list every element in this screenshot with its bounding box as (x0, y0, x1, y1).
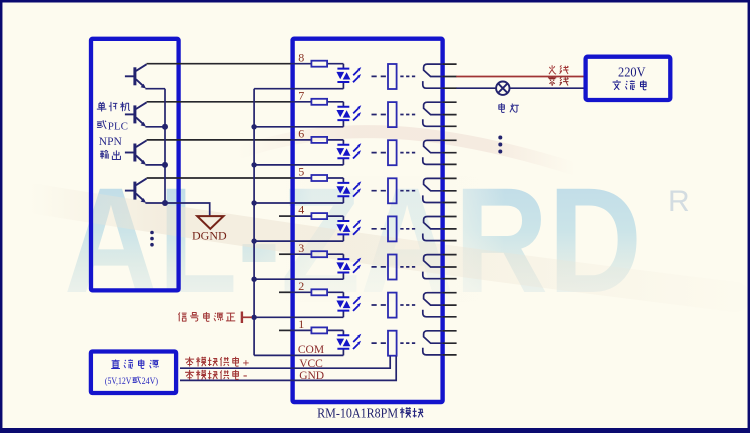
svg-text:4: 4 (298, 203, 304, 217)
svg-text:VCC: VCC (299, 358, 323, 370)
svg-text:7: 7 (298, 88, 304, 102)
svg-text:PLC: PLC (108, 120, 128, 132)
svg-text:RM-10A1R8PM: RM-10A1R8PM (317, 406, 398, 421)
svg-text:6: 6 (298, 127, 304, 141)
svg-text:24V): 24V) (142, 376, 159, 387)
svg-text:(5V,12V: (5V,12V (105, 376, 132, 387)
svg-text:DGND: DGND (192, 229, 227, 243)
svg-text:-: - (243, 367, 247, 382)
svg-text:2: 2 (298, 279, 304, 293)
svg-text:NPN: NPN (99, 136, 123, 148)
svg-text:R: R (668, 185, 690, 218)
svg-text:8: 8 (298, 50, 304, 64)
svg-text:220V: 220V (618, 64, 646, 79)
svg-text:COM: COM (298, 344, 324, 356)
svg-text:1: 1 (298, 317, 304, 331)
svg-text:3: 3 (298, 241, 304, 255)
svg-text:5: 5 (298, 165, 304, 179)
svg-text:GND: GND (299, 370, 324, 382)
